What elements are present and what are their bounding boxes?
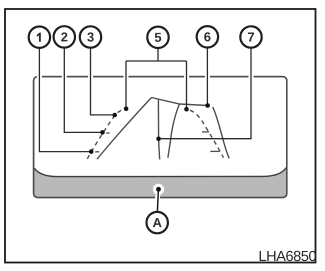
leader 1	[39, 49, 89, 152]
node dot 7	[156, 137, 161, 142]
leader 6	[206, 48, 208, 103]
top guide line	[152, 98, 208, 106]
distance tick dash near node 2	[106, 132, 109, 134]
leader A white casing	[155, 191, 160, 200]
node dot 3	[112, 113, 117, 118]
left dashed predicted course line	[87, 108, 126, 158]
callout circle 2	[54, 26, 75, 47]
node dot 5 left	[124, 107, 129, 112]
callout circle 5	[147, 27, 168, 48]
callout circle 7	[240, 26, 261, 47]
right solid guide edge	[213, 107, 230, 158]
callout circle 6	[197, 26, 218, 47]
leader 2	[64, 48, 100, 132]
center vertical guide line	[158, 99, 159, 159]
callout circle 1	[29, 27, 50, 48]
callout circle 3	[80, 26, 101, 47]
halo around bumper node A	[153, 184, 164, 195]
monitor screen outline	[34, 77, 287, 198]
node dot A	[156, 187, 161, 192]
figure code label	[260, 251, 266, 261]
distance tick dash right 1m	[202, 131, 209, 133]
leader 3	[91, 49, 113, 115]
gaps in screen top edge where leaders cross	[37, 75, 254, 199]
leader A	[156, 192, 159, 212]
left solid guide curve	[97, 98, 152, 160]
distance tick dash right 2m	[210, 150, 219, 152]
leader 7	[161, 49, 251, 139]
screen border redraw	[34, 77, 287, 198]
bumper top edge	[34, 168, 286, 177]
inner trapezoid left edge	[168, 104, 179, 158]
distance tick dash near node 1	[95, 151, 99, 153]
bumper gray area	[34, 168, 286, 197]
node dot 2	[100, 130, 105, 135]
node dot 5 right	[184, 107, 189, 112]
callout circle A	[147, 212, 168, 233]
node dot 1	[89, 149, 94, 154]
right dashed predicted course line	[187, 109, 224, 158]
node dot 6	[205, 103, 210, 108]
leader 5 bracket	[126, 49, 187, 108]
